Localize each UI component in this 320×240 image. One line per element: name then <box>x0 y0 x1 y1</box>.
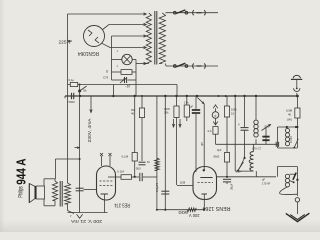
svg-text:ψ: ψ <box>214 114 216 118</box>
svg-text:(W): (W) <box>287 118 292 122</box>
svg-text:38μF: 38μF <box>230 183 234 190</box>
svg-text:C79: C79 <box>103 76 109 80</box>
svg-text:RENS 1264: RENS 1264 <box>203 205 231 211</box>
svg-text:Ω38: Ω38 <box>180 180 186 184</box>
svg-text:μF: μF <box>262 177 265 181</box>
svg-text:600: 600 <box>178 210 188 215</box>
svg-text:Philips: Philips <box>18 186 25 198</box>
svg-text:3|5: 3|5 <box>200 142 204 146</box>
svg-text:0μF: 0μF <box>217 148 222 152</box>
svg-text:170·6F: 170·6F <box>262 182 271 186</box>
svg-text:200 V, 21 mA: 200 V, 21 mA <box>71 219 102 224</box>
svg-text:0,4: 0,4 <box>208 129 212 133</box>
svg-text:505: 505 <box>265 125 270 129</box>
svg-text:×: × <box>117 64 119 68</box>
svg-text:40: 40 <box>131 112 135 116</box>
svg-text:×: × <box>117 49 119 53</box>
svg-text:RES 374: RES 374 <box>114 202 130 208</box>
svg-text:20k: 20k <box>164 111 169 115</box>
svg-text:~67: ~67 <box>125 85 131 89</box>
svg-text:0.010: 0.010 <box>289 136 293 143</box>
svg-text:17k: 17k <box>184 101 189 105</box>
svg-text:40: 40 <box>288 112 292 116</box>
svg-text:500: 500 <box>136 167 141 171</box>
svg-text:5000: 5000 <box>69 100 76 104</box>
svg-text:944 A: 944 A <box>14 159 28 185</box>
svg-text:230V, 4mA: 230V, 4mA <box>87 118 92 142</box>
svg-text:0,1μ: 0,1μ <box>69 78 75 82</box>
svg-text:0,1M: 0,1M <box>122 155 129 159</box>
svg-text:M: M <box>249 167 251 171</box>
svg-text:μF: μF <box>190 105 193 109</box>
svg-text:0,1μF4: 0,1μF4 <box>155 182 159 192</box>
svg-text:U·1M: U·1M <box>117 170 125 174</box>
svg-text:200 V: 200 V <box>189 213 200 218</box>
svg-text:170·C7: 170·C7 <box>252 147 262 151</box>
svg-text:0M2: 0M2 <box>214 155 220 159</box>
svg-text:Sk: Sk <box>83 89 87 93</box>
svg-text:RGN1064: RGN1064 <box>78 50 99 56</box>
svg-text:10: 10 <box>231 111 235 115</box>
svg-text:1M≈: 1M≈ <box>236 169 242 173</box>
